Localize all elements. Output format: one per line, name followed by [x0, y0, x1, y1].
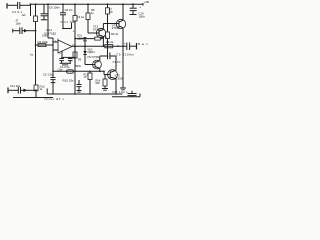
svg-text:КТ3102: КТ3102	[93, 27, 103, 31]
svg-text:VT2 КТ361: VT2 КТ361	[87, 56, 100, 59]
svg-text:КД521: КД521	[88, 51, 96, 54]
svg-text:С9 2200м: С9 2200м	[116, 53, 134, 57]
svg-text:С5 1.5м: С5 1.5м	[43, 72, 53, 76]
svg-text:Пульт ДУ с: Пульт ДУ с	[45, 97, 65, 100]
svg-text:+: +	[139, 5, 141, 9]
svg-text:R15 20к: R15 20к	[63, 79, 75, 83]
svg-text:Вых: Вых	[138, 42, 148, 46]
svg-text:500: 500	[96, 82, 101, 85]
svg-text:+: +	[126, 90, 128, 94]
svg-text:КТ815: КТ815	[112, 26, 120, 30]
svg-text:5600: 5600	[75, 65, 81, 68]
svg-text:R8 1к: R8 1к	[101, 36, 108, 39]
svg-text:100к: 100к	[42, 35, 48, 38]
svg-text:КТ819: КТ819	[115, 76, 123, 80]
svg-text:С3 0.1: С3 0.1	[61, 21, 69, 24]
svg-text:1м: 1м	[30, 54, 33, 57]
svg-text:1.5м: 1.5м	[57, 68, 62, 71]
svg-text:КД521: КД521	[77, 37, 85, 40]
svg-text:C8 0.1: C8 0.1	[65, 8, 74, 12]
svg-text:С27 1.8н: С27 1.8н	[112, 90, 125, 94]
svg-text:100н: 100н	[139, 14, 146, 18]
svg-text:C11 23н: C11 23н	[10, 84, 21, 88]
svg-text:R3 100к: R3 100к	[38, 40, 49, 44]
svg-text:+2В: +2В	[144, 0, 149, 4]
svg-text:100к: 100к	[16, 22, 22, 25]
svg-text:С4 1м: С4 1м	[77, 16, 84, 19]
svg-text:R6 2к: R6 2к	[111, 32, 119, 36]
svg-text:C6 100н: C6 100н	[49, 6, 60, 10]
svg-text:1к0: 1к0	[22, 14, 26, 17]
svg-text:R9 2к: R9 2к	[106, 40, 114, 44]
svg-text:100н: 100н	[70, 21, 76, 24]
svg-text:C7 0.1: C7 0.1	[113, 60, 122, 64]
